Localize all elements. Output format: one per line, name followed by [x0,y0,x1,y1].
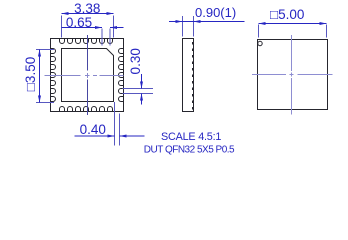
dimension 5.00 extension lines [259,25,327,38]
left view center mark [85,73,90,78]
svg-text:□3.50: □3.50 [23,57,38,91]
dimension 3.50 extension lines [36,50,54,103]
dimension 0.65 extension lines [102,29,110,46]
top view pin1 marker circle [258,41,262,45]
left pins column [51,49,56,102]
bottom pins row [60,107,113,112]
left view: inner pad boundary with chamfer [62,49,114,102]
dimension 5.00 line and arrows [259,22,327,25]
top view horizontal centerline [252,74,333,76]
dimension 0.90(1) line and arrows [169,20,245,23]
svg-text:DUT QFN32 5X5 P0.5: DUT QFN32 5X5 P0.5 [144,145,235,156]
left view vertical centerline [87,35,89,115]
svg-text:□5.00: □5.00 [270,7,304,22]
dimension 3.50 line and arrows [38,50,41,103]
svg-text:3.38: 3.38 [74,1,100,16]
side view body outline [183,39,194,112]
top view body outline [258,40,328,110]
side view hidden edge dashed line [192,42,194,110]
dimension 0.30 extension lines [123,89,154,94]
svg-text:0.90(1): 0.90(1) [195,5,236,20]
svg-text:0.40: 0.40 [80,122,106,137]
top view vertical centerline [291,35,293,115]
svg-text:0.65: 0.65 [66,15,92,30]
dimension 0.40 line and arrows [75,135,145,138]
top pins row [60,39,113,44]
left view: QFN body outline [51,39,124,112]
left view horizontal centerline [45,75,124,77]
svg-text:SCALE 4.5:1: SCALE 4.5:1 [161,131,221,143]
dimension 0.30 lines and arrows [140,74,143,105]
right pins column [119,49,124,102]
dimension 0.65 line and arrows [62,26,124,29]
dimension 3.38 line and arrows [62,12,114,15]
dimension 0.40 extension lines [115,102,120,146]
dimension 0.90(1) extension lines [183,16,194,37]
dimension 3.38 extension lines [62,16,114,38]
svg-text:0.30: 0.30 [128,48,143,74]
top view center mark [290,73,294,77]
